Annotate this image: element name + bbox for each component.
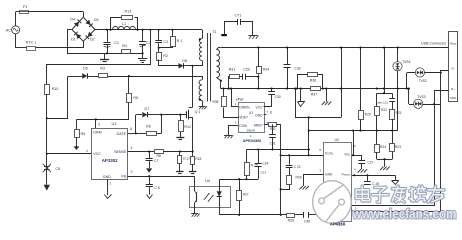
svg-text:DRM: DRM xyxy=(93,131,101,135)
svg-text:R8: R8 xyxy=(156,154,160,158)
svg-text:Vbus: Vbus xyxy=(450,41,457,45)
svg-text:AP3302: AP3302 xyxy=(102,158,118,163)
svg-text:R 17: R 17 xyxy=(183,157,190,161)
svg-text:U4: U4 xyxy=(205,179,210,183)
svg-text:C27: C27 xyxy=(367,160,373,164)
svg-text:C23: C23 xyxy=(260,171,266,175)
svg-text:GND: GND xyxy=(255,114,263,118)
svg-text:Vxbusx: Vxbusx xyxy=(342,173,351,177)
svg-text:3: 3 xyxy=(98,122,100,126)
svg-text:R36: R36 xyxy=(310,78,316,82)
svg-text:R23: R23 xyxy=(395,145,401,149)
svg-text:GND: GND xyxy=(325,173,333,177)
svg-text:CY1: CY1 xyxy=(235,14,242,18)
svg-text:GND: GND xyxy=(450,96,458,100)
svg-text:R10: R10 xyxy=(52,87,59,91)
svg-text:C31: C31 xyxy=(270,141,276,145)
svg-text:VDET: VDET xyxy=(239,116,248,120)
svg-text:R24: R24 xyxy=(380,145,386,149)
svg-text:R12: R12 xyxy=(184,125,191,129)
svg-text:L1: L1 xyxy=(122,22,126,26)
svg-text:C7: C7 xyxy=(154,159,158,163)
svg-text:D+: D+ xyxy=(451,87,455,91)
svg-text:R 1: R 1 xyxy=(177,39,183,43)
svg-text:Q 1: Q 1 xyxy=(195,110,201,114)
svg-text:AREF: AREF xyxy=(254,124,263,128)
svg-text:4: 4 xyxy=(131,146,133,150)
svg-text:7, 8: 7, 8 xyxy=(266,110,272,114)
svg-text:R2: R2 xyxy=(163,54,168,58)
svg-text:1: 1 xyxy=(109,181,111,185)
svg-text:DRVH: DRVH xyxy=(247,129,255,133)
svg-text:C 26: C 26 xyxy=(372,182,379,186)
svg-text:APR34306: APR34306 xyxy=(243,139,262,143)
svg-text:DRAIN: DRAIN xyxy=(239,105,250,109)
svg-text:D8: D8 xyxy=(182,59,187,63)
svg-text:D3: D3 xyxy=(94,18,99,22)
svg-text:R35: R35 xyxy=(212,100,218,104)
svg-text:R28: R28 xyxy=(288,219,294,223)
svg-text:D1: D1 xyxy=(71,37,76,41)
svg-text:NTC 1: NTC 1 xyxy=(26,41,37,45)
svg-text:U2: U2 xyxy=(335,138,340,142)
svg-text:C24: C24 xyxy=(262,162,268,166)
svg-text:R13: R13 xyxy=(125,10,132,14)
svg-text:D4: D4 xyxy=(70,18,75,22)
svg-text:GND: GND xyxy=(103,175,111,179)
svg-text:R3: R3 xyxy=(100,66,105,70)
svg-text:C1: C1 xyxy=(114,41,119,45)
svg-text:C36: C36 xyxy=(304,219,310,223)
svg-text:C3: C3 xyxy=(163,40,168,44)
svg-text:F1: F1 xyxy=(23,4,28,9)
svg-text:R34: R34 xyxy=(263,67,269,71)
svg-text:TVS2: TVS2 xyxy=(419,79,427,83)
svg-text:GATE: GATE xyxy=(116,132,126,136)
svg-text:R31: R31 xyxy=(229,68,235,72)
svg-text:D2: D2 xyxy=(90,37,95,41)
svg-text:COM: COM xyxy=(239,124,247,128)
svg-text:AC: AC xyxy=(6,27,12,32)
svg-text:VCC: VCC xyxy=(93,152,101,156)
svg-text:R26: R26 xyxy=(296,176,302,180)
svg-text:R6: R6 xyxy=(146,125,151,129)
svg-text:C29: C29 xyxy=(243,68,249,72)
svg-text:VCC: VCC xyxy=(256,105,264,109)
svg-text:D5: D5 xyxy=(83,66,88,70)
svg-text:www.elecfans.com: www.elecfans.com xyxy=(352,206,457,221)
svg-text:C32: C32 xyxy=(294,67,300,71)
svg-text:R22: R22 xyxy=(381,108,387,112)
svg-text:C 6: C 6 xyxy=(154,186,160,190)
svg-text:D7: D7 xyxy=(144,107,149,111)
svg-text:TVS4: TVS4 xyxy=(402,60,410,64)
svg-text:C5: C5 xyxy=(55,167,60,171)
svg-text:FB: FB xyxy=(121,175,126,179)
svg-text:C30: C30 xyxy=(275,95,281,99)
svg-text:USB Connector: USB Connector xyxy=(421,42,447,46)
svg-text:VDD: VDD xyxy=(344,153,350,157)
svg-text:abs C21: abs C21 xyxy=(377,100,388,104)
svg-text:R21: R21 xyxy=(396,111,402,115)
svg-text:R27: R27 xyxy=(243,192,249,196)
svg-text:R4: R4 xyxy=(122,44,127,48)
svg-text:R37: R37 xyxy=(311,93,317,97)
svg-text:6: 6 xyxy=(130,127,132,131)
svg-text:R5: R5 xyxy=(133,96,138,100)
svg-text:U1: U1 xyxy=(112,121,118,126)
svg-text:D-: D- xyxy=(451,67,454,71)
svg-text:R20: R20 xyxy=(365,113,371,117)
svg-text:VCTRL: VCTRL xyxy=(325,152,334,156)
svg-text:TVS3: TVS3 xyxy=(417,95,425,99)
svg-text:R18: R18 xyxy=(195,157,201,161)
svg-text:SENSE: SENSE xyxy=(114,150,127,154)
svg-text:C 22: C 22 xyxy=(294,165,301,169)
svg-text:ePad: ePad xyxy=(236,97,244,101)
svg-text:2: 2 xyxy=(131,170,133,174)
svg-text:R9: R9 xyxy=(81,132,86,136)
svg-text:1: 1 xyxy=(86,149,88,153)
svg-text:U3: U3 xyxy=(249,111,253,115)
svg-text:AP433X: AP433X xyxy=(330,221,346,226)
svg-text:R32: R32 xyxy=(270,127,276,131)
svg-text:T1: T1 xyxy=(212,30,216,34)
